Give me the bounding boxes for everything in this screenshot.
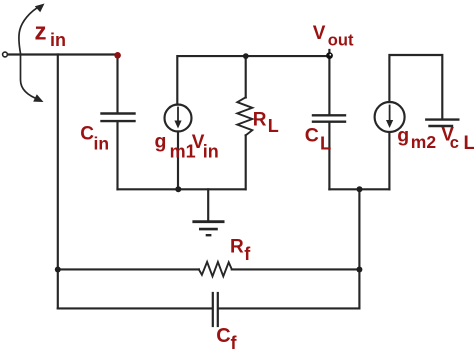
label zin [35, 18, 67, 50]
label VcL [441, 124, 474, 154]
source VcL top bar [426, 118, 458, 120]
label CL [305, 124, 332, 153]
wire right rail [329, 188, 389, 190]
gm2 arrowhead [386, 120, 393, 128]
svg-text:R: R [253, 110, 267, 131]
wire Rf rail left [58, 268, 199, 270]
label Vout [313, 23, 354, 50]
ground symbol bars [192, 222, 224, 236]
svg-text:m2: m2 [411, 132, 437, 152]
op current source gm2 circle [375, 102, 405, 132]
svg-text:L: L [464, 133, 474, 154]
svg-text:R: R [230, 237, 244, 258]
svg-text:V: V [313, 23, 326, 44]
svg-text:L: L [268, 116, 279, 136]
arrowheads [33, 4, 393, 129]
wire Rf rail right [232, 268, 360, 270]
zin lower arrow [21, 56, 41, 100]
wire gm2 top loop [389, 55, 442, 118]
wire Cf rail right [219, 307, 359, 309]
svg-text:z: z [35, 18, 47, 45]
wire middle ground rail [118, 188, 246, 190]
label RL [253, 110, 279, 137]
svg-text:C: C [80, 124, 94, 145]
junction Rf right dot [356, 267, 362, 273]
resistor RL zigzag [237, 97, 252, 135]
svg-text:L: L [320, 132, 331, 153]
gm2 arrow [389, 106, 391, 124]
junction gm1 bottom dot [175, 186, 181, 192]
capacitor Cin top plate [102, 112, 135, 114]
junction Rf left dot [55, 267, 61, 273]
wire input to node A [8, 53, 116, 55]
junction node A red dot [114, 52, 121, 59]
wire left vertical feedback [57, 55, 59, 309]
label gm2 [397, 125, 436, 152]
capacitor Cf right plate [217, 293, 219, 326]
label Rf [230, 237, 251, 264]
wire Cin to ground rail [116, 122, 118, 189]
zin upper arrowhead [35, 4, 45, 13]
svg-text:g: g [397, 125, 409, 147]
svg-text:f: f [244, 244, 251, 264]
wire RL bottom [245, 135, 247, 189]
wire CL bottom [328, 123, 330, 190]
svg-text:c: c [450, 134, 459, 152]
gm1 arrowhead [174, 121, 181, 129]
junction RL top dot [243, 53, 249, 59]
zin upper arrow [19, 6, 40, 53]
wire node A down to Cin [116, 56, 118, 113]
wire gm1 bottom [177, 132, 179, 190]
junction right rail dot [357, 186, 363, 192]
label Cf [216, 325, 237, 353]
capacitor Cin bottom plate [102, 120, 135, 122]
wire ground stem [207, 189, 209, 220]
svg-text:g: g [155, 130, 167, 152]
capacitor CL bottom plate [313, 120, 345, 122]
gm1 arrow [177, 108, 179, 124]
label gm1 Vin [155, 130, 219, 161]
zin lower arrowhead [33, 94, 43, 102]
wire top rail gm1 to Vout [177, 56, 329, 104]
input terminal [3, 52, 8, 57]
capacitor Cf left plate [212, 293, 214, 326]
wire Vout down to CL [328, 50, 330, 114]
wire right feedback vertical [358, 189, 360, 308]
source VcL bottom bar [430, 125, 453, 127]
svg-text:in: in [94, 133, 110, 153]
svg-text:in: in [50, 30, 66, 50]
wire Cf rail left [58, 307, 212, 309]
node Vout dot [326, 52, 333, 59]
svg-text:f: f [231, 333, 238, 353]
capacitor CL top plate [313, 114, 345, 116]
wire RL top [245, 56, 247, 97]
wire gm2 bottom [388, 132, 390, 189]
label Cin [80, 124, 109, 154]
svg-text:C: C [216, 325, 230, 347]
op current source gm1 circle [165, 105, 192, 132]
svg-text:out: out [328, 32, 354, 50]
svg-text:C: C [305, 124, 319, 146]
resistor Rf zigzag [199, 262, 232, 276]
svg-text:in: in [203, 142, 219, 162]
